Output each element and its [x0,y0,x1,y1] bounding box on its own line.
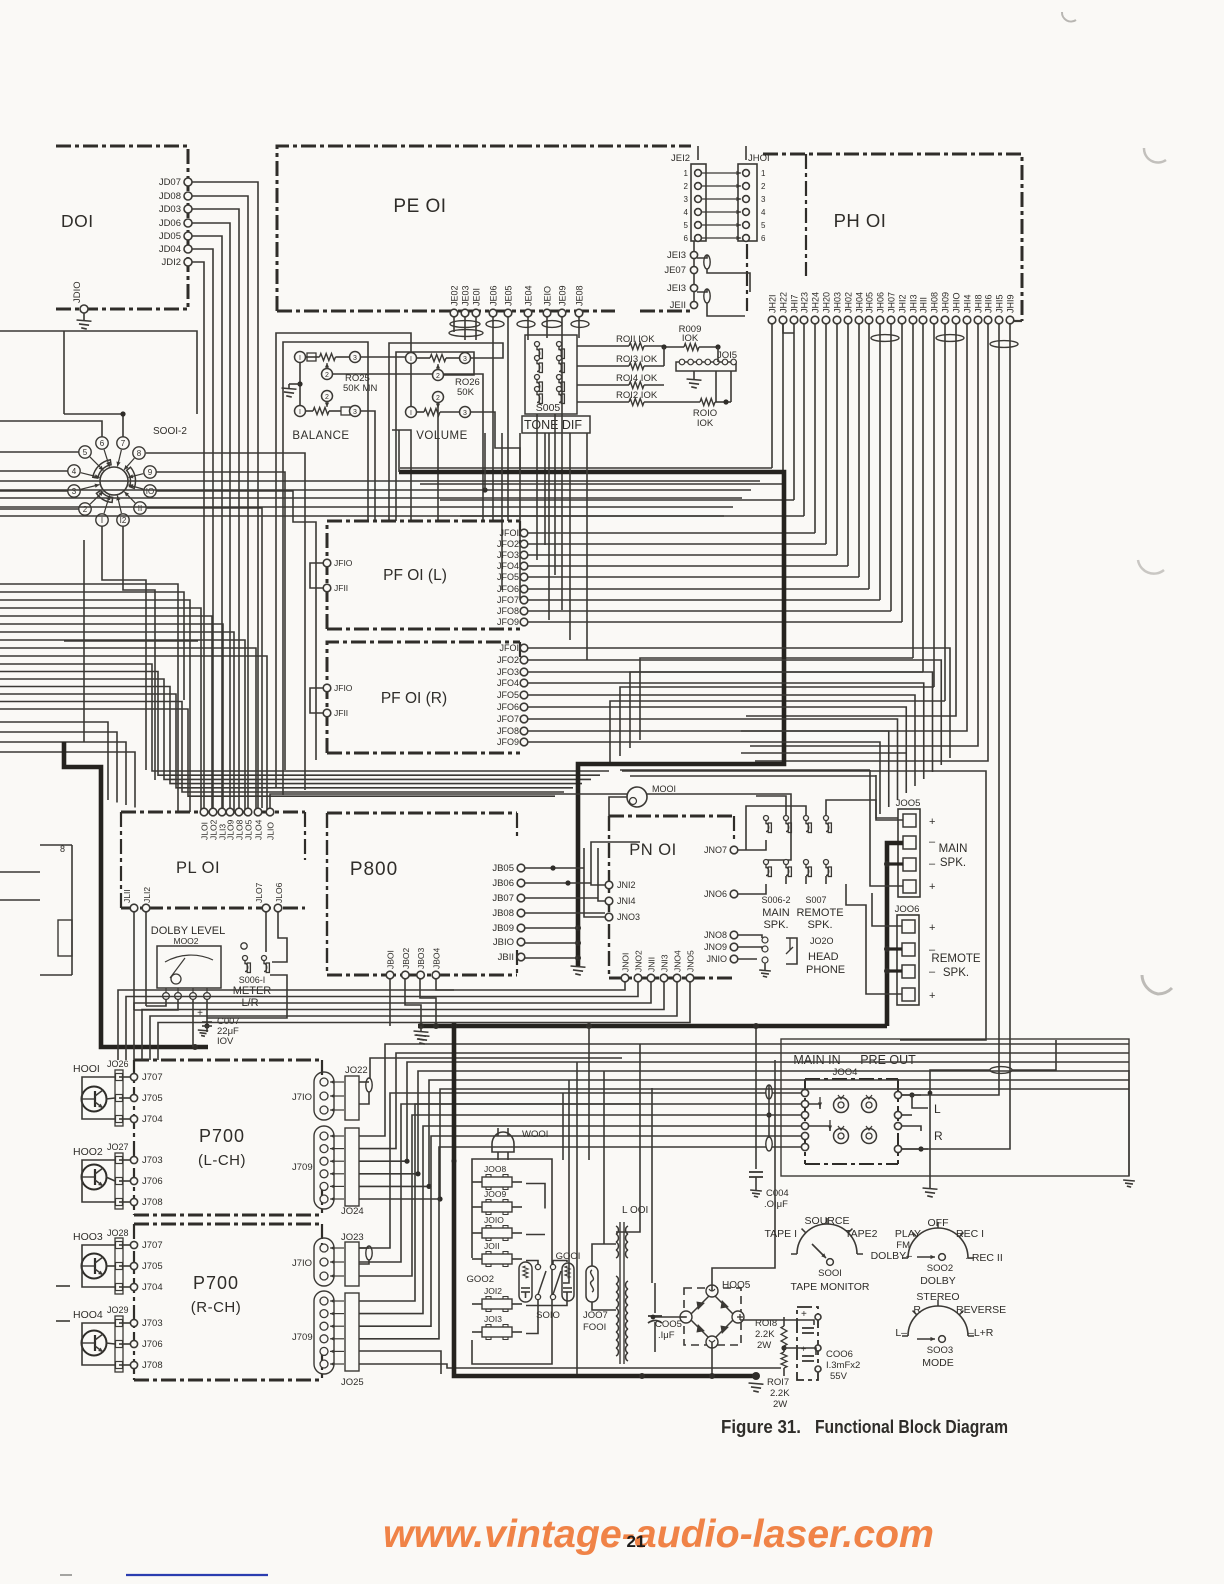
pins JF10 JF11 on PF01 L [310,558,353,593]
svg-text:JNO4: JNO4 [673,950,683,972]
svg-text:PLAY: PLAY [895,1228,921,1240]
svg-text:JEI2: JEI2 [671,153,690,164]
svg-text:TAPE MONITOR: TAPE MONITOR [791,1281,870,1293]
svg-text:6: 6 [100,439,105,448]
lamp G001 [556,1251,581,1301]
svg-text:JLI2: JLI2 [142,887,152,903]
svg-text:JFO9: JFO9 [497,737,519,747]
pins JF01-JF09 on PF01 R [497,643,528,747]
svg-text:JE05: JE05 [504,285,514,306]
svg-text:JHI9: JHI9 [1006,294,1016,313]
svg-text:L OOI: L OOI [622,1205,648,1216]
svg-text:JFOI: JFOI [500,528,520,538]
svg-text:FOOI: FOOI [583,1322,606,1333]
svg-text:DOLBY: DOLBY [920,1275,956,1287]
connector JH01 [738,153,770,243]
block PE01 [277,146,691,311]
svg-text:S007: S007 [805,895,826,905]
svg-text:JD04: JD04 [159,244,181,255]
svg-text:JBO3: JBO3 [416,947,426,969]
svg-text:SPK.: SPK. [807,919,832,931]
figure caption [721,1417,1008,1437]
middle bundle horizontals [0,430,760,516]
svg-text:JE07: JE07 [664,265,686,276]
svg-text:+: + [801,1309,807,1320]
left wire bundle third [0,722,135,808]
svg-text:JEI3: JEI3 [667,283,686,294]
svg-text:SPK.: SPK. [763,919,788,931]
svg-text:JEI3: JEI3 [667,250,686,261]
transistor H003 with J028 [73,1228,163,1294]
svg-text:3: 3 [353,409,357,416]
svg-text:2: 2 [436,373,440,380]
svg-text:DOLBY–: DOLBY– [871,1250,913,1262]
block PL01 [121,812,305,908]
svg-text:JB09: JB09 [492,923,514,934]
svg-text:JLO6: JLO6 [274,882,284,903]
svg-text:JFO7: JFO7 [497,714,519,724]
svg-text:JH07: JH07 [887,292,897,313]
svg-text:JNO8: JNO8 [704,930,727,940]
transistor H002 with J027 [73,1142,163,1209]
JH long wires right side [741,324,1010,1063]
svg-text:JNIO: JNIO [706,954,727,964]
svg-text:I: I [410,410,412,417]
svg-text:JO22: JO22 [345,1065,368,1076]
svg-text:JNI3: JNI3 [660,954,670,972]
svg-text:3: 3 [353,355,357,362]
svg-text:J704: J704 [142,1282,163,1293]
capacitor C004 [749,1023,789,1210]
svg-text:2.2K: 2.2K [755,1329,775,1340]
pins JB01-JB04 on P800 bottom [386,947,442,978]
svg-text:PE OI: PE OI [393,196,446,217]
svg-text:.IμF: .IμF [658,1330,675,1341]
svg-text:JNO5: JNO5 [686,950,696,972]
svg-text:JE09: JE09 [558,285,568,306]
svg-text:JHI6: JHI6 [984,294,994,313]
svg-text:(R-CH): (R-CH) [191,1299,241,1316]
svg-text:Functional Block Diagram: Functional Block Diagram [815,1417,1008,1437]
svg-text:JE08: JE08 [575,285,585,306]
stubs at left edge [56,1286,70,1321]
svg-text:JLO4: JLO4 [254,819,264,840]
selector S001 TAPE MONITOR [765,1215,878,1293]
headphone jack J020 [738,935,845,977]
wires around BALANCE [276,333,483,795]
svg-text:2W: 2W [757,1340,771,1351]
connectors J008-J013 [472,1164,522,1340]
wires J023 J025 right [359,1093,781,1374]
svg-text:JO28: JO28 [107,1228,129,1238]
ground under P800 [415,1035,430,1044]
scan artifact crescent mid [1144,148,1166,163]
scan artifact top right [1062,12,1076,22]
svg-text:JHI4: JHI4 [963,294,973,313]
svg-text:IOV: IOV [217,1036,234,1047]
svg-text:MOOI: MOOI [652,784,676,794]
pins JB05-JB11 on P800 right [492,863,524,963]
wire M001 [609,797,627,816]
wires JN bottom to left [118,982,690,1060]
svg-text:JFO8: JFO8 [497,726,519,736]
svg-text:JE04: JE04 [524,285,534,306]
svg-text:SPK.: SPK. [940,857,966,869]
wires power supply [651,1060,816,1379]
svg-text:J707: J707 [142,1072,163,1083]
svg-text:MODE: MODE [922,1357,954,1369]
svg-text:JDI2: JDI2 [161,257,181,268]
svg-text:JBOI: JBOI [386,950,396,969]
svg-text:ROI7: ROI7 [767,1377,789,1388]
verticals into power area [563,1027,652,1374]
transformer L001 [616,1205,648,1364]
svg-text:JB06: JB06 [492,878,514,889]
svg-text:II: II [138,504,142,513]
svg-text:J707: J707 [142,1240,163,1251]
svg-text:REC I: REC I [956,1228,984,1240]
svg-text:JFO5: JFO5 [497,690,519,700]
svg-text:JFII: JFII [334,583,348,593]
svg-text:REVERSE: REVERSE [956,1304,1006,1316]
svg-text:JFO4: JFO4 [497,561,519,571]
terminal strip J005 MAIN SPK [896,798,968,897]
svg-text:JOO9: JOO9 [484,1189,506,1199]
resistor R018 [755,1317,787,1351]
svg-text:–: – [929,836,936,848]
svg-text:JHIO: JHIO [952,292,962,313]
block JD01 (cut at page edge) [56,146,188,309]
svg-text:JNI4: JNI4 [617,896,636,906]
svg-text:DOI: DOI [61,211,94,231]
svg-text:I: I [101,516,103,525]
wire PH01 corner to JH19 [1014,320,1022,322]
pins JL11 JL12 JL07 JL06 on PL01 bottom [122,882,284,911]
svg-text:I.3mFx2: I.3mFx2 [826,1360,860,1371]
ground right of J004 [1123,1070,1135,1187]
connector J709 J025 [292,1291,364,1388]
JH wires heading left lower [610,658,945,764]
verticals from tone area down [485,433,587,660]
svg-text:5: 5 [83,448,88,457]
svg-text:–REC II: –REC II [966,1252,1003,1264]
svg-text:METER: METER [233,985,272,997]
svg-text:8: 8 [60,844,65,854]
svg-text:L–: L– [895,1327,907,1339]
wires power primary [526,1184,616,1334]
wires JF R pins to right [528,648,950,814]
svg-text:JOO8: JOO8 [484,1164,506,1174]
svg-text:JNO2: JNO2 [634,950,644,972]
svg-text:C004: C004 [766,1188,789,1199]
svg-text:JO27: JO27 [107,1142,129,1152]
svg-text:JE0I: JE0I [472,288,482,306]
connector J709 J024 [292,1126,364,1217]
svg-text:J704: J704 [142,1114,163,1125]
svg-text:JOO6: JOO6 [895,904,920,915]
svg-text:www.vintage-audio-laser.com: www.vintage-audio-laser.com [383,1513,934,1556]
JH wires to PF01 L pins [528,533,902,622]
blue pen mark [60,1574,268,1576]
pins JL01-JL10 on PL01 top [200,808,276,840]
svg-text:50K: 50K [457,387,475,398]
scan artifact hole 1 [1138,560,1164,574]
bead and feed PRE OUT [923,1040,1056,1197]
connector pins JD07-JD12 on JD01 [159,177,192,268]
pins JN12 JN14 JN03 on PN01 left [605,880,640,922]
svg-text:5: 5 [761,221,766,230]
svg-text:VOLUME: VOLUME [416,430,468,442]
svg-text:SOO3: SOO3 [927,1345,953,1356]
svg-text:JNO9: JNO9 [704,942,727,952]
svg-text:PH OI: PH OI [834,210,887,231]
svg-text:+: + [929,816,935,828]
svg-text:MOO2: MOO2 [173,936,198,946]
svg-text:JOO4: JOO4 [833,1067,858,1078]
svg-text:PL OI: PL OI [176,859,220,877]
svg-text:6: 6 [761,234,766,243]
resistor R017 [767,1352,790,1410]
svg-text:JLII: JLII [122,889,132,903]
svg-text:JFO7: JFO7 [497,595,519,605]
svg-text:MAIN IN: MAIN IN [793,1053,840,1067]
pins JN07 JN06 JN08 JN09 JN10 on PN01 right [704,845,738,964]
left wire bundle lower [0,664,609,796]
block P700 R-CH [134,1224,322,1380]
svg-text:JHII: JHII [919,297,929,313]
bridge rectifier H005 [680,1280,751,1348]
selector S003 MODE [895,1291,1006,1369]
wires speaker switches [738,796,898,894]
svg-text:JO29: JO29 [107,1305,129,1315]
svg-text:J708: J708 [142,1197,163,1208]
svg-text:2: 2 [761,182,766,191]
svg-text:TAPE I: TAPE I [765,1228,797,1240]
svg-text:JFO8: JFO8 [497,606,519,616]
svg-text:PF OI (R): PF OI (R) [381,690,447,707]
svg-text:I2: I2 [120,516,127,525]
svg-text:–: – [929,858,936,870]
switch S010 [535,1264,561,1321]
svg-text:JFIO: JFIO [334,683,353,693]
svg-text:50K MN: 50K MN [343,383,377,394]
connector J015 with ground [676,350,737,402]
pin JD10 with ground [72,281,91,329]
svg-text:JDIO: JDIO [72,281,83,303]
svg-text:JH05: JH05 [865,292,875,313]
svg-text:JHI5: JHI5 [995,294,1005,313]
svg-text:J706: J706 [142,1339,163,1350]
svg-text:R: R [913,1304,921,1316]
switch S006-1 METER [233,943,272,1009]
svg-text:JOO7: JOO7 [583,1310,608,1321]
svg-text:JH24: JH24 [811,292,821,313]
svg-text:JBIO: JBIO [493,937,514,948]
svg-text:ROI4 IOK: ROI4 IOK [616,373,658,384]
svg-text:+: + [929,922,935,934]
svg-text:JH2I: JH2I [768,294,778,313]
svg-text:SPK.: SPK. [943,967,969,979]
rotary switch S001-2 [68,426,188,526]
svg-text:8: 8 [137,449,142,458]
svg-text:R: R [934,1129,943,1143]
svg-text:1: 1 [761,169,766,178]
wires JB01-JB04 down [390,979,454,1026]
svg-text:JLO5: JLO5 [244,819,254,840]
svg-text:JLO7: JLO7 [254,882,264,903]
svg-text:JFIO: JFIO [334,558,353,568]
svg-text:J706: J706 [142,1176,163,1187]
block P700 L-CH [134,1060,322,1215]
svg-text:+: + [929,881,935,893]
svg-text:L: L [934,1102,941,1116]
svg-text:4: 4 [684,208,689,217]
thick main wire T1 [399,472,784,975]
capacitor C007 [197,1008,240,1047]
svg-text:SOIO: SOIO [536,1310,560,1321]
scan artifact hole 2 [1142,975,1172,994]
svg-text:JOII: JOII [484,1241,500,1251]
svg-text:+: + [801,1344,806,1354]
svg-text:TONE DIF: TONE DIF [524,418,582,432]
svg-text:JO25: JO25 [341,1377,364,1388]
svg-text:BALANCE: BALANCE [292,430,349,442]
svg-text:TAPE2: TAPE2 [845,1228,878,1240]
svg-text:PRE OUT: PRE OUT [860,1053,916,1067]
ferrite beads under JE pins [449,321,589,337]
svg-text:(L-CH): (L-CH) [198,1152,246,1169]
svg-text:I: I [299,355,301,362]
svg-text:JH02: JH02 [844,292,854,313]
svg-text:JD03: JD03 [159,204,181,215]
wire JH01 stub [746,146,747,311]
wires JE pins to tone resistors [454,317,718,610]
svg-text:.OIμF: .OIμF [764,1199,788,1210]
svg-text:JNOI: JNOI [621,953,631,972]
svg-text:JOI3: JOI3 [484,1314,502,1324]
svg-text:S006-2: S006-2 [761,895,790,905]
selector S002 DOLBY [871,1217,1003,1287]
block PF01 L [327,521,520,629]
misc wires [0,0,1,1]
svg-text:ROI2 IOK: ROI2 IOK [616,390,658,401]
capacitor C005 [648,1283,682,1352]
svg-text:JBII: JBII [498,952,514,963]
svg-text:JNO7: JNO7 [704,845,727,855]
svg-text:J705: J705 [142,1261,163,1272]
svg-text:S006-I: S006-I [239,975,266,985]
svg-text:JE03: JE03 [461,285,471,306]
transistor H004 with J029 [73,1305,163,1372]
svg-text:–: – [929,966,936,978]
svg-text:HOOI: HOOI [73,1063,100,1075]
svg-text:JFO4: JFO4 [497,678,519,688]
svg-text:JOO5: JOO5 [896,798,921,809]
switch S005 TONE DIF [522,335,590,433]
wires around J004 [640,1085,928,1152]
wires JL07 JL06 to S006-1 [207,912,287,1018]
connector J710 J023 [292,1232,372,1286]
thick wire T4 [884,843,903,1026]
svg-text:JFO3: JFO3 [497,550,519,560]
plug W001 [492,1128,548,1160]
svg-text:2.2K: 2.2K [770,1388,790,1399]
svg-text:3: 3 [463,356,467,363]
svg-text:REMOTE: REMOTE [796,907,843,919]
svg-text:JLIO: JLIO [266,822,276,840]
svg-text:JFO3: JFO3 [497,667,519,677]
svg-text:JEII: JEII [670,300,686,311]
left wire bundle upper [0,540,267,812]
svg-text:1: 1 [684,169,689,178]
lamp M001 [627,784,676,807]
svg-text:JNII: JNII [647,957,657,972]
svg-text:JH06: JH06 [876,292,886,313]
svg-text:3: 3 [72,487,77,496]
connector JE12 [671,153,706,243]
svg-text:6: 6 [684,234,689,243]
svg-text:JFO5: JFO5 [497,572,519,582]
svg-text:JFO2: JFO2 [497,655,519,665]
svg-text:HEAD: HEAD [808,951,839,963]
svg-text:3: 3 [761,195,766,204]
meter M002 DOLBY LEVEL [151,925,225,999]
svg-text:COO6: COO6 [826,1349,853,1360]
pins JF10 JF11 on PF01 R [310,683,353,718]
thick wire T3 [418,1023,887,1029]
wires around VOLUME [389,343,520,521]
svg-text:REMOTE: REMOTE [931,953,981,965]
svg-text:OFF: OFF [928,1217,949,1229]
svg-text:HOO2: HOO2 [73,1146,103,1158]
svg-text:HOO3: HOO3 [73,1231,103,1243]
block PH01 [763,154,1022,321]
svg-text:JH08: JH08 [930,292,940,313]
partial connector block at left edge [0,844,72,975]
svg-text:JD08: JD08 [159,191,181,202]
ferrite beads under JH pins [783,324,1018,347]
svg-text:I: I [299,409,301,416]
svg-text:IO: IO [146,487,154,496]
svg-text:JB07: JB07 [492,893,514,904]
svg-text:7: 7 [121,439,126,448]
spare [0,0,1,1]
svg-text:55V: 55V [830,1371,848,1382]
svg-text:JHI3: JHI3 [909,294,919,313]
JH wires heading left upper [400,468,804,516]
terminal strip J006 REMOTE SPK [895,904,981,1005]
svg-text:HOO4: HOO4 [73,1309,103,1321]
svg-text:J705: J705 [142,1093,163,1104]
svg-text:2W: 2W [773,1399,787,1410]
svg-text:+: + [929,990,935,1002]
svg-text:JE02: JE02 [450,285,460,306]
connector J710 J022 [292,1065,368,1120]
svg-text:Figure 31.: Figure 31. [721,1417,801,1437]
svg-text:P700: P700 [193,1273,239,1293]
wires JE12 to JH01 [702,171,741,240]
wire JE12 top [697,146,699,160]
thick wire T5 [454,1022,763,1392]
svg-text:JO24: JO24 [341,1206,364,1217]
svg-text:JD07: JD07 [159,177,181,188]
svg-text:J709: J709 [292,1332,313,1343]
capacitor block C006 [797,1307,860,1382]
wires meter to left [134,999,210,1047]
svg-text:JFII: JFII [334,708,348,718]
svg-text:JO2O: JO2O [810,936,834,946]
connector pins JH21-JH19 under PH01 [768,292,1016,324]
